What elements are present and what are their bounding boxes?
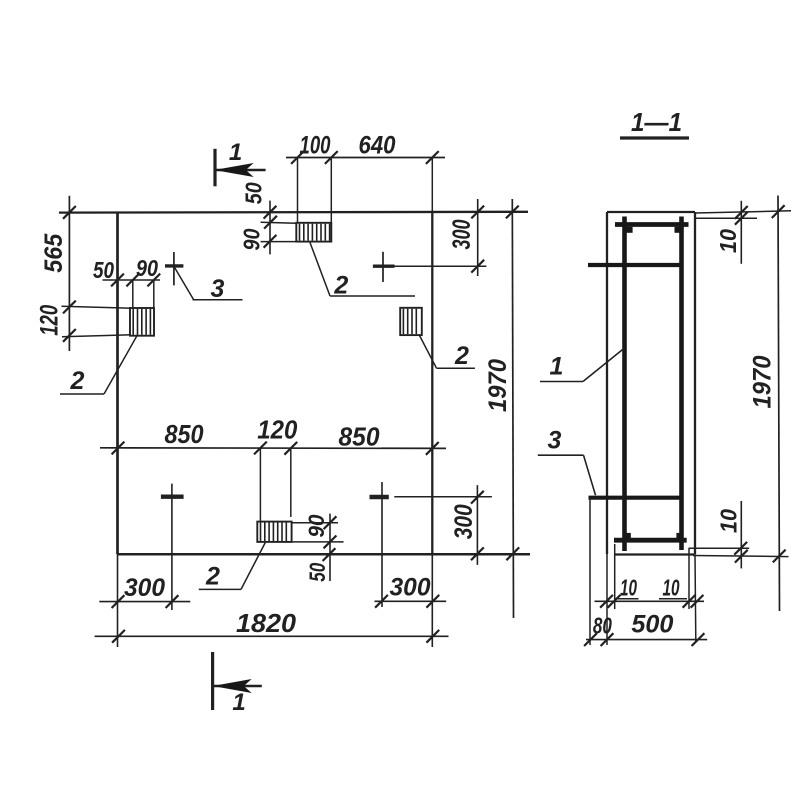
svg-text:10: 10 bbox=[620, 575, 637, 601]
svg-text:2: 2 bbox=[205, 563, 220, 591]
svg-text:1: 1 bbox=[232, 689, 245, 716]
svg-text:850: 850 bbox=[165, 419, 204, 449]
svg-text:2: 2 bbox=[454, 342, 469, 370]
svg-text:300: 300 bbox=[124, 574, 165, 602]
svg-text:1820: 1820 bbox=[236, 608, 297, 638]
svg-text:50: 50 bbox=[93, 257, 114, 283]
svg-text:80: 80 bbox=[593, 613, 612, 639]
svg-text:120: 120 bbox=[36, 305, 64, 336]
svg-text:100: 100 bbox=[300, 132, 331, 160]
svg-text:10: 10 bbox=[663, 575, 680, 601]
svg-text:300: 300 bbox=[450, 504, 478, 539]
svg-text:850: 850 bbox=[339, 422, 381, 452]
svg-text:500: 500 bbox=[631, 611, 673, 639]
svg-text:300: 300 bbox=[448, 219, 476, 249]
svg-text:1: 1 bbox=[550, 353, 564, 381]
svg-text:50: 50 bbox=[305, 562, 330, 582]
svg-text:10: 10 bbox=[715, 229, 741, 253]
svg-text:3: 3 bbox=[211, 275, 225, 303]
svg-text:2: 2 bbox=[333, 271, 348, 299]
svg-text:3: 3 bbox=[548, 427, 562, 455]
svg-text:90: 90 bbox=[239, 228, 265, 250]
svg-text:300: 300 bbox=[390, 574, 431, 602]
svg-text:1: 1 bbox=[229, 139, 242, 166]
svg-text:2: 2 bbox=[70, 367, 85, 395]
svg-text:1970: 1970 bbox=[749, 355, 777, 408]
svg-text:640: 640 bbox=[359, 132, 396, 160]
svg-text:1—1: 1—1 bbox=[631, 107, 682, 137]
svg-text:120: 120 bbox=[257, 414, 297, 444]
svg-text:565: 565 bbox=[40, 233, 68, 273]
svg-text:50: 50 bbox=[241, 182, 267, 204]
svg-text:90: 90 bbox=[136, 255, 158, 281]
svg-text:90: 90 bbox=[304, 514, 329, 538]
svg-text:10: 10 bbox=[716, 509, 742, 533]
svg-text:1970: 1970 bbox=[484, 359, 512, 412]
